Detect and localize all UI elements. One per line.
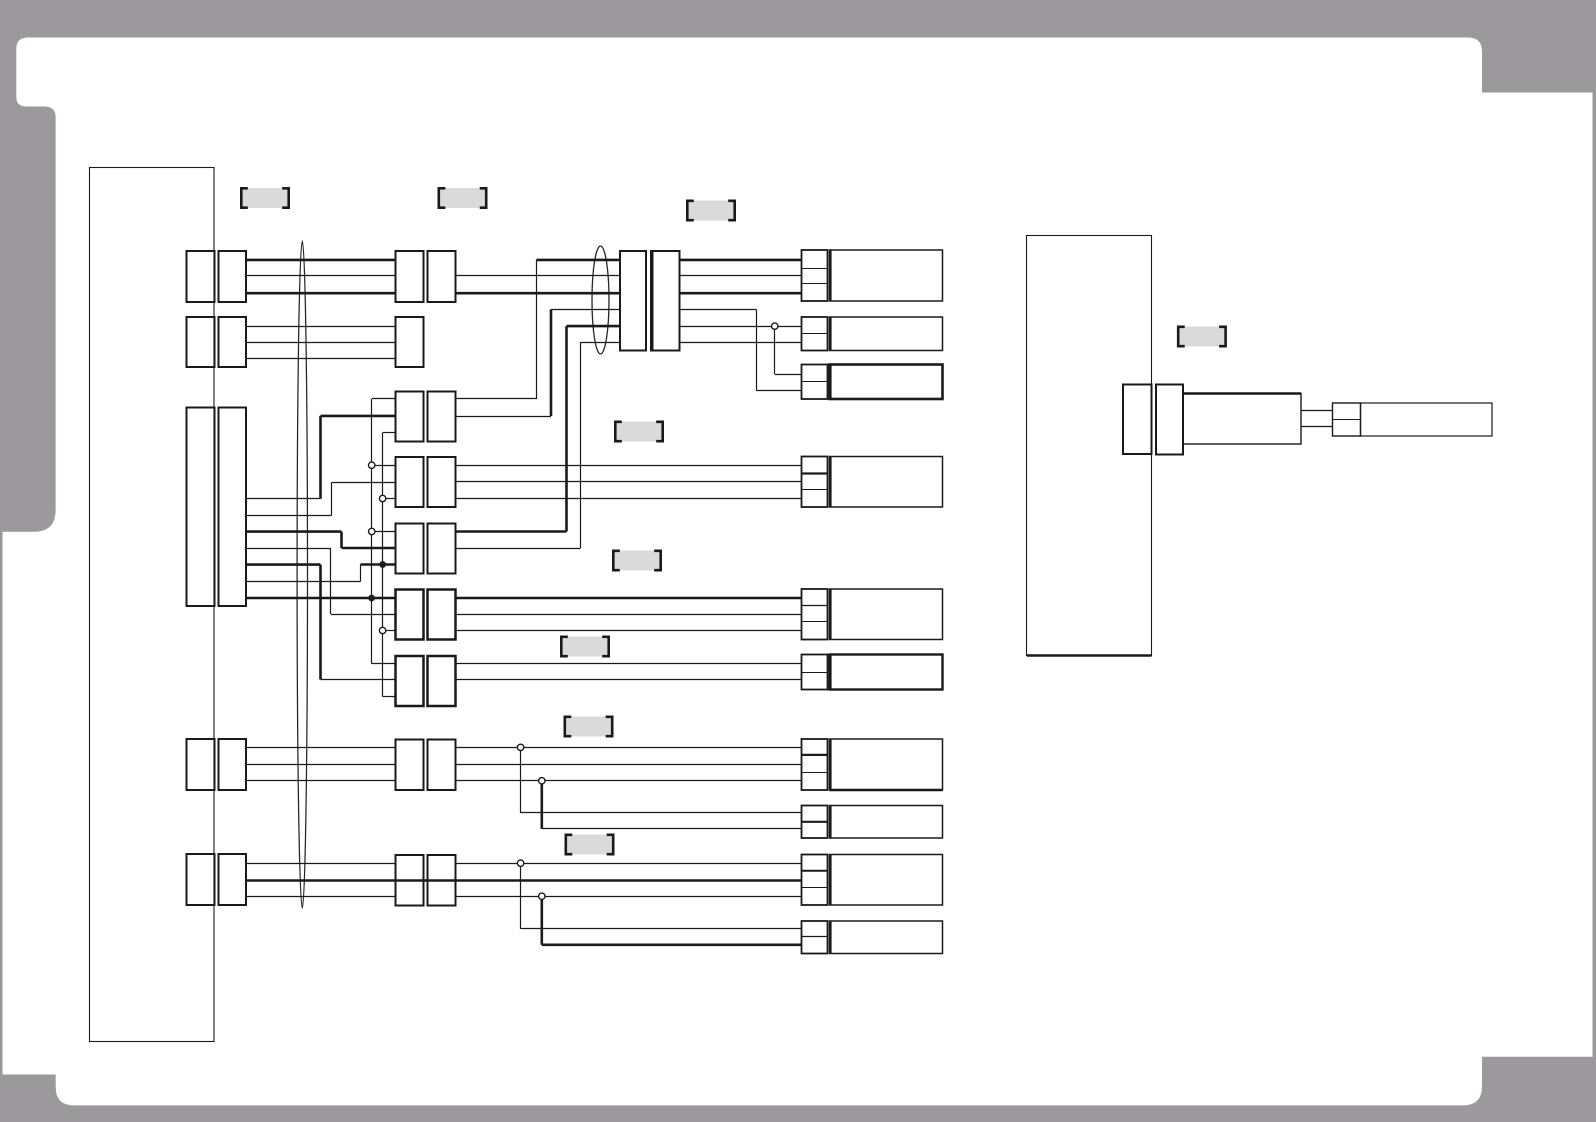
central connector right half left edge: [651, 251, 654, 351]
component U8 box left edge: [829, 806, 832, 839]
wire: [456, 879, 802, 882]
component U8 box: [830, 806, 943, 839]
component U2 connector: [802, 317, 828, 351]
label placeholder L4: [615, 422, 662, 442]
wire: [680, 342, 802, 344]
wire: [332, 482, 396, 484]
connector CN-R (harness side): [1156, 385, 1183, 455]
wire: [331, 614, 396, 616]
wire: [520, 863, 522, 929]
component U1 connector divider: [802, 268, 828, 270]
wire: [581, 342, 621, 344]
junction (open): [539, 893, 545, 899]
wire: [542, 943, 802, 946]
wire: [580, 342, 582, 548]
wire: [246, 597, 396, 600]
wire: [536, 260, 538, 399]
component U1 connector divider: [802, 283, 828, 285]
component U2 box: [830, 317, 943, 351]
connector M-C (left half): [396, 392, 424, 442]
wire: [361, 563, 396, 566]
connector CN-R (unit side): [1123, 385, 1152, 455]
connector R3: [1333, 403, 1361, 436]
wire: [537, 259, 621, 262]
junction (open): [772, 323, 778, 329]
junction (open): [369, 528, 375, 534]
connector CN-B (unit side): [187, 317, 215, 367]
connector M-E (right half): [428, 524, 456, 574]
wire: [456, 630, 802, 632]
wire: [774, 326, 776, 374]
connector M-F (right half): [428, 590, 456, 640]
wire: [360, 565, 362, 582]
end component box: [1361, 403, 1493, 436]
connector M-H (left half): [396, 740, 424, 791]
wire: [321, 415, 396, 418]
connector M-A (right half): [428, 251, 456, 302]
label placeholder L8: [566, 835, 613, 855]
right unit box bottom edge: [1027, 654, 1152, 656]
component U6 connector divider: [802, 672, 828, 674]
wire: [371, 399, 373, 664]
wire: [246, 780, 396, 782]
connector M-G (left half): [396, 656, 424, 706]
wire: [246, 358, 396, 360]
wire: [680, 275, 802, 277]
connector R3 divider: [1333, 419, 1361, 421]
junction (open): [517, 860, 523, 866]
wire: [383, 432, 396, 434]
connector CN-T (harness side): [219, 408, 247, 607]
wire: [456, 498, 802, 500]
component U5 connector divider: [802, 621, 828, 623]
connector M-D (right half): [428, 457, 456, 507]
component U7 connector: [802, 739, 828, 790]
component U10 connector: [802, 921, 828, 954]
wire: [540, 781, 543, 829]
central connector (right half): [651, 251, 680, 351]
label placeholder L3: [687, 201, 734, 221]
component U7 connector divider: [802, 754, 828, 756]
wire: [372, 663, 396, 665]
wire: [456, 548, 581, 550]
wire: [1301, 426, 1333, 428]
component U6 box left edge: [829, 655, 832, 690]
wire: [456, 614, 802, 616]
harness loop ellipse (left bundle): [297, 241, 307, 908]
junction (open): [369, 462, 375, 468]
component U4 connector divider: [802, 472, 828, 474]
connector M-D (left half): [396, 457, 424, 507]
connector M-G (right half): [428, 656, 456, 706]
wire: [246, 764, 396, 766]
component U1 box left edge: [829, 250, 832, 301]
wire: [246, 275, 396, 277]
component U4 connector: [802, 457, 828, 508]
component U3 connector divider: [802, 381, 828, 383]
connector M-B (single): [396, 317, 424, 367]
wire: [342, 547, 396, 550]
wire: [321, 679, 396, 681]
wire: [382, 433, 384, 697]
wire: [565, 326, 568, 531]
wire: [246, 342, 396, 344]
wire: [775, 374, 802, 376]
connector CN-A (unit side): [187, 251, 215, 302]
wire: [246, 879, 456, 882]
wire: [246, 259, 396, 262]
wire: [456, 663, 802, 665]
connector M-H (right half): [428, 740, 456, 791]
component U10 connector divider: [802, 936, 828, 938]
wire: [456, 416, 552, 418]
connector M-E (left half): [396, 524, 424, 574]
connector CN-A (harness side): [219, 251, 247, 302]
label placeholder L9: [1178, 327, 1225, 347]
component U3 connector: [802, 365, 828, 400]
wire: [456, 747, 802, 749]
component U8 connector: [802, 806, 828, 839]
component U5 connector: [802, 589, 828, 640]
connector M-I (right half): [428, 855, 456, 906]
wire: [756, 390, 801, 392]
component U2 box left edge: [829, 317, 832, 351]
wire: [246, 896, 396, 898]
wire: [319, 565, 322, 680]
component U5 box left edge: [829, 589, 832, 640]
wire: [246, 530, 342, 533]
connector CN-H (unit side): [187, 739, 215, 790]
component U4 connector divider: [802, 489, 828, 491]
plug body top edge: [1183, 392, 1301, 395]
junction (open): [379, 627, 385, 633]
component U4 box: [830, 457, 943, 508]
wire: [456, 530, 567, 533]
wire: [1301, 410, 1333, 412]
wire: [246, 548, 331, 550]
junction (open): [539, 778, 545, 784]
wire: [246, 326, 396, 328]
wire: [456, 481, 802, 483]
wire: [372, 465, 396, 467]
wire: [246, 563, 321, 566]
connector CN-I (unit side): [187, 854, 215, 905]
harness loop ellipse (center bundle): [592, 246, 609, 354]
junction (solid): [368, 595, 375, 602]
junction (solid): [379, 561, 386, 568]
label placeholder L2: [439, 188, 486, 208]
component U9 connector divider: [802, 870, 828, 872]
wire: [246, 515, 332, 517]
wire: [680, 292, 802, 295]
wire: [567, 325, 621, 328]
connector CN-T (unit side): [187, 408, 215, 607]
component U5 connector divider: [802, 605, 828, 607]
component U7 box: [830, 739, 943, 790]
wire: [542, 828, 802, 830]
wire: [456, 398, 537, 400]
connector CN-H (harness side): [219, 739, 247, 790]
connector M-A (left half): [396, 251, 424, 302]
wire: [383, 696, 396, 698]
connector M-C (right half): [428, 392, 456, 442]
plug body box: [1183, 394, 1301, 445]
wire: [330, 548, 332, 614]
wire: [456, 764, 802, 766]
wire: [372, 398, 396, 400]
component U9 box left edge: [829, 855, 832, 906]
component U1 connector: [802, 250, 828, 301]
component U2 connector divider: [802, 333, 828, 335]
wire: [331, 483, 333, 516]
component U4 box left edge: [829, 457, 832, 508]
component U10 box: [830, 921, 943, 954]
wire: [520, 747, 522, 813]
wire: [551, 309, 620, 311]
label placeholder L5: [613, 551, 660, 571]
wire: [456, 292, 621, 295]
wire: [246, 581, 361, 583]
label placeholder L6: [561, 637, 608, 657]
wire: [521, 812, 802, 814]
right unit box: [1027, 236, 1152, 656]
wire: [456, 863, 802, 865]
component U9 connector divider: [802, 887, 828, 889]
component U9 box: [830, 855, 943, 906]
wire: [456, 597, 802, 600]
component U1 box: [830, 250, 943, 301]
connector M-I (left half): [396, 855, 424, 906]
wire: [340, 532, 343, 548]
component U9 connector: [802, 855, 828, 906]
label placeholder L7: [565, 717, 612, 737]
component U8 connector divider: [802, 821, 828, 823]
component U7 connector divider: [802, 772, 828, 774]
wire: [456, 896, 802, 898]
component U7 box bottom edge: [830, 789, 943, 792]
central connector (left half): [620, 251, 646, 351]
wire: [383, 498, 396, 500]
connector CN-B (harness side): [219, 317, 247, 367]
wire: [372, 531, 396, 533]
wire: [521, 928, 802, 930]
component U6 connector: [802, 655, 828, 690]
wire: [319, 416, 322, 499]
wire: [246, 863, 396, 865]
wire: [756, 309, 758, 390]
wire: [246, 498, 321, 500]
wire: [456, 780, 802, 782]
wire: [550, 309, 553, 416]
wire: [383, 630, 396, 632]
component U6 box: [830, 655, 943, 690]
connector M-F (left half): [396, 590, 424, 640]
wire: [456, 465, 802, 467]
wire: [680, 259, 802, 262]
label placeholder L1: [241, 188, 288, 208]
connector CN-I (harness side): [219, 854, 247, 905]
wire: [246, 292, 396, 295]
wire: [680, 309, 757, 311]
wire: [246, 747, 396, 749]
component U3 box: [830, 365, 943, 400]
wire: [540, 896, 543, 945]
component U3 box left edge: [829, 365, 832, 400]
junction (open): [379, 495, 385, 501]
wire: [456, 275, 621, 277]
junction (open): [517, 744, 523, 750]
wire: [680, 326, 802, 328]
component U10 box left edge: [829, 921, 832, 954]
wire: [456, 679, 802, 681]
main control unit box (left): [90, 168, 215, 1042]
component U5 box: [830, 589, 943, 640]
component U7 box left edge: [829, 739, 832, 790]
